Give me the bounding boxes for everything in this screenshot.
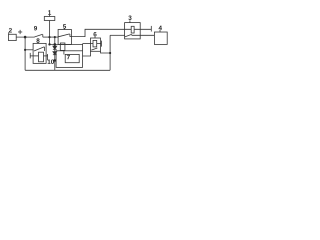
svg-text:2: 2 — [9, 27, 13, 34]
svg-text:9: 9 — [34, 25, 38, 32]
svg-text:7: 7 — [67, 54, 71, 61]
svg-text:3: 3 — [128, 15, 132, 22]
svg-text:1: 1 — [48, 10, 52, 17]
svg-text:8: 8 — [36, 38, 40, 45]
svg-text:10: 10 — [47, 59, 55, 66]
svg-text:6: 6 — [93, 31, 97, 38]
svg-text:5: 5 — [63, 24, 67, 31]
svg-text:4: 4 — [159, 25, 163, 32]
